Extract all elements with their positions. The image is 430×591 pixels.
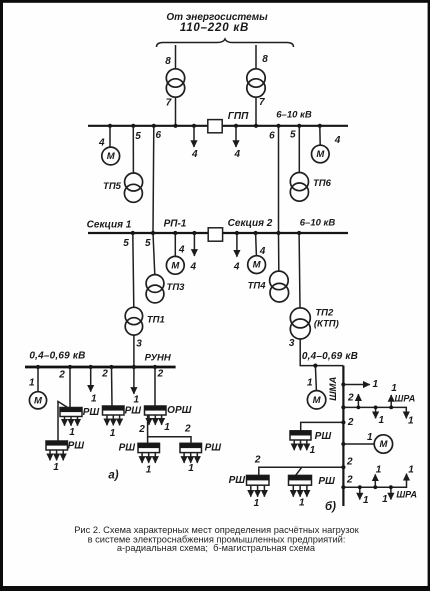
svg-text:РШ: РШ <box>318 476 335 487</box>
svg-text:б): б) <box>325 501 336 513</box>
svg-text:ТП3: ТП3 <box>167 282 186 293</box>
svg-text:1: 1 <box>379 415 385 426</box>
svg-text:1: 1 <box>310 445 316 456</box>
node: M drop section1 <box>173 231 177 235</box>
svg-text:3: 3 <box>136 338 142 349</box>
cabinet RSh-b3 <box>289 475 312 485</box>
node: motor drop on RUNN <box>36 365 40 369</box>
wire: ShMA to RSh-b1 <box>301 422 344 430</box>
svg-text:М: М <box>316 149 325 160</box>
svg-text:ОРШ: ОРШ <box>167 405 191 416</box>
wire: T2 to GPP bus <box>255 97 257 126</box>
svg-text:2: 2 <box>347 417 354 428</box>
svg-text:М: М <box>107 151 116 162</box>
arrow: outgoing feeder RUNN 1 <box>90 367 92 392</box>
svg-text:2: 2 <box>58 370 65 381</box>
motor M4 (section 2) <box>248 256 266 274</box>
svg-text:РШ: РШ <box>229 475 246 486</box>
svg-text:2: 2 <box>346 457 353 468</box>
wire: T1 to GPP bus <box>175 97 177 126</box>
svg-text:1: 1 <box>53 462 59 473</box>
cabinet RSh5 <box>180 443 202 452</box>
node: RSh1 feeder <box>68 365 72 369</box>
arrow: ShRA1 up tap 1 <box>357 394 359 407</box>
arrow: outgoing feeder left of box <box>193 126 195 147</box>
outer frame top <box>0 0 430 3</box>
transformer TP4 <box>270 271 289 302</box>
outer frame bottom <box>0 586 430 591</box>
node: outgoing arrow RUNN 1 <box>89 365 93 369</box>
node: RSh-b2/b3 branch <box>341 465 345 469</box>
svg-text:2: 2 <box>138 424 145 435</box>
cabinet RSh4 <box>138 443 160 452</box>
node: top right arrow <box>341 382 345 386</box>
svg-text:ШРА: ШРА <box>395 394 416 404</box>
svg-text:2: 2 <box>157 369 164 380</box>
node: T1 connection <box>173 124 177 128</box>
arrow: ShRA1 end drop <box>405 413 407 418</box>
transformer TP6 <box>290 173 308 202</box>
node: feeder 6 to section 1 <box>152 124 156 128</box>
arrow: outgoing feeder section2 <box>236 233 238 257</box>
svg-text:ТП5: ТП5 <box>103 181 122 192</box>
arrows: loads under RSh4 <box>142 453 155 463</box>
node: motor branch on ShMA <box>341 442 345 446</box>
svg-text:2: 2 <box>254 455 261 466</box>
arrow: branch right from ShMA <box>343 384 369 386</box>
cabinet RSh-b1 <box>290 431 311 440</box>
wire: RSh1 hook down to RSh2 <box>58 402 70 442</box>
svg-text:ТП6: ТП6 <box>313 178 332 189</box>
svg-text:а-радиальная схема; б-магистр: а-радиальная схема; б-магистральная схем… <box>117 543 316 553</box>
node on ShRA1 <box>357 406 361 410</box>
motor M5 (0.4 kV) <box>29 392 46 409</box>
svg-text:1: 1 <box>408 464 414 475</box>
wire: section2 to TP4 <box>278 233 280 271</box>
node: left outgoing arrow <box>192 124 196 128</box>
svg-text:ШМА: ШМА <box>328 377 339 401</box>
node: M drop on GPP bus right <box>318 124 322 128</box>
breaker box between section 1 and 2 <box>208 228 222 241</box>
svg-text:РУНН: РУНН <box>145 352 172 363</box>
svg-text:0,4–0,69 кВ: 0,4–0,69 кВ <box>29 351 85 362</box>
svg-text:5: 5 <box>290 129 296 140</box>
wire: to motor M section2 <box>255 233 258 256</box>
svg-text:РШ: РШ <box>315 431 332 442</box>
svg-text:5: 5 <box>135 131 141 142</box>
transformer T1 (left 110/6-10) <box>166 69 184 97</box>
svg-text:8: 8 <box>165 56 171 67</box>
svg-text:4: 4 <box>98 137 105 148</box>
wire: TP1 to RUNN bus <box>133 335 135 366</box>
node: RSh-b1 branch <box>341 420 345 424</box>
wire: ORSh down to RSh4 <box>147 415 149 443</box>
svg-text:Секция 1: Секция 1 <box>87 219 132 230</box>
wire: ShRA1 busway <box>343 407 406 418</box>
svg-text:ГПП: ГПП <box>228 111 249 122</box>
wire: ShMA to motor M7 <box>343 443 374 445</box>
wire: to RSh3 <box>111 367 114 406</box>
svg-text:4: 4 <box>334 135 341 146</box>
arrows: loads under ORSh <box>149 415 162 425</box>
wire: feeder 6 from GPP bus down to section 2 bus <box>278 126 280 233</box>
svg-text:РШ: РШ <box>83 407 100 418</box>
svg-text:5: 5 <box>123 238 129 249</box>
arrows: loads under RSh1 <box>65 417 78 426</box>
wire: to motor M (GPP bus left) <box>109 126 111 147</box>
motor M2 (6-10 kV, right) <box>312 145 330 163</box>
svg-text:РП-1: РП-1 <box>164 218 187 229</box>
wire: ShMA left to RSh-b2 <box>259 467 344 475</box>
node: RSh3 feeder <box>109 365 113 369</box>
node on ShRA1 <box>374 406 378 410</box>
wire: to RSh1 <box>69 367 71 408</box>
outer frame left <box>0 0 3 591</box>
svg-text:М: М <box>34 395 43 406</box>
svg-text:1: 1 <box>146 464 152 475</box>
svg-text:110–220 кВ: 110–220 кВ <box>180 22 249 34</box>
node: TP2 feeder <box>297 231 301 235</box>
node: M drop on GPP bus <box>108 124 112 128</box>
node: outgoing arrow section2 <box>235 231 239 235</box>
node: TP1 feeder <box>131 231 135 235</box>
arrows: loads under RSh3 <box>107 415 120 425</box>
svg-text:0,4–0,69 кВ: 0,4–0,69 кВ <box>302 351 358 362</box>
wire: TP2 down and over to ShMA <box>300 339 343 366</box>
arrows: loads under RSh-b1 <box>294 440 307 450</box>
arrow: ShRA2 down tap 1 <box>359 487 361 499</box>
node on ShRA1 <box>389 406 393 410</box>
svg-text:1: 1 <box>382 494 388 505</box>
node: TP4 feeder <box>276 231 280 235</box>
wire: section1 to TP1 <box>133 233 134 307</box>
bus: ShMA vertical trunk <box>342 366 344 506</box>
svg-text:4: 4 <box>234 149 241 160</box>
node: ORSh feeder <box>153 365 157 369</box>
svg-text:1: 1 <box>254 498 260 509</box>
svg-text:1: 1 <box>164 422 170 433</box>
arrow: outgoing feeder right of box <box>235 126 237 147</box>
motor M1 (6-10 kV, left) <box>102 147 120 165</box>
node: ShRA1 branch <box>341 405 345 409</box>
wire: to ORSh <box>154 367 156 406</box>
arrow: ShRA2 end up <box>406 474 408 481</box>
arrows: loads under RSh-b3 <box>293 485 307 497</box>
svg-text:а): а) <box>108 470 118 482</box>
arrows: loads under RSh5 <box>184 453 197 463</box>
motor M7 (scheme b right) <box>374 435 392 453</box>
node on ShRA2 <box>389 485 393 489</box>
svg-text:М: М <box>313 395 322 406</box>
svg-text:РШ: РШ <box>205 443 222 454</box>
wire: to motor M section1 <box>174 233 176 257</box>
svg-text:3: 3 <box>289 338 295 349</box>
svg-text:1: 1 <box>110 428 116 439</box>
transformer TP2 (KTP) <box>290 308 310 339</box>
svg-text:1: 1 <box>367 432 373 443</box>
svg-text:1: 1 <box>373 379 379 390</box>
svg-text:РШ: РШ <box>119 443 136 454</box>
svg-text:2: 2 <box>184 423 191 434</box>
svg-text:6: 6 <box>269 131 275 142</box>
svg-text:4: 4 <box>259 246 266 257</box>
wire: feeder 6 from GPP bus down to section 1 bus <box>152 126 155 233</box>
cabinet RSh-b2 <box>247 475 270 485</box>
svg-text:4: 4 <box>178 244 185 255</box>
outer frame right <box>428 0 430 591</box>
svg-text:4: 4 <box>190 262 197 273</box>
wire: to motor M (GPP bus right) <box>319 126 321 146</box>
svg-text:2: 2 <box>101 368 108 379</box>
wire: left supply line into T1 <box>175 45 177 69</box>
svg-text:1: 1 <box>299 498 305 509</box>
svg-text:6–10 кВ: 6–10 кВ <box>300 217 336 228</box>
node: right outgoing arrow <box>234 124 238 128</box>
motor M6 (scheme b top) <box>307 391 325 409</box>
node: motor tap on TP2 link <box>313 364 317 368</box>
svg-text:7: 7 <box>166 98 172 109</box>
svg-text:М: М <box>171 260 180 271</box>
svg-text:(КТП): (КТП) <box>314 319 339 330</box>
svg-text:1: 1 <box>391 383 397 394</box>
svg-text:ТП4: ТП4 <box>248 280 267 291</box>
node: TP6 drop <box>297 124 301 128</box>
arrows: loads under RSh-b2 <box>251 485 265 497</box>
svg-text:1: 1 <box>134 394 140 405</box>
transformer TP5 <box>124 173 142 202</box>
arrow: ShRA1 up tap 2 <box>390 395 392 407</box>
svg-text:8: 8 <box>262 54 268 65</box>
cabinet RSh1 <box>60 408 82 417</box>
brace: supply from energy system <box>157 39 294 47</box>
arrow: outgoing feeder section1 <box>193 233 195 256</box>
svg-text:6: 6 <box>156 130 162 141</box>
node: TP5 drop <box>131 124 135 128</box>
bus: GPP 6-10 kV busbar <box>88 125 348 127</box>
svg-text:1: 1 <box>29 378 35 389</box>
node: ShRA2 branch <box>341 485 345 489</box>
node: TP3 feeder <box>151 231 155 235</box>
svg-text:1: 1 <box>188 463 194 474</box>
svg-text:1: 1 <box>363 495 369 506</box>
svg-text:М: М <box>253 260 262 271</box>
svg-text:М: М <box>379 439 388 450</box>
svg-text:7: 7 <box>259 97 265 108</box>
svg-text:6–10 кВ: 6–10 кВ <box>276 109 312 120</box>
svg-text:4: 4 <box>191 149 198 160</box>
wire: tap down to RSh-b3 <box>296 467 302 475</box>
node: M drop section2 <box>254 231 258 235</box>
wire: section2 to TP2 <box>298 233 301 308</box>
transformer TP1 <box>125 307 142 335</box>
transformer T2 (right 110/6-10) <box>247 69 265 97</box>
svg-text:1: 1 <box>69 427 75 438</box>
arrow: outgoing feeder RUNN 2 <box>133 367 135 394</box>
svg-text:5: 5 <box>145 238 151 249</box>
wire: right supply line into T2 <box>255 45 257 69</box>
node: feeder 6 to section 2 <box>276 124 280 128</box>
wire: to motor M RUNN <box>37 367 39 392</box>
arrows: loads under RSh2 <box>50 450 63 460</box>
svg-text:2: 2 <box>346 475 353 486</box>
wire: to motor M (ShMA top) <box>315 366 316 391</box>
svg-text:4: 4 <box>233 262 240 273</box>
cabinet ОРШ <box>145 406 167 415</box>
svg-text:1: 1 <box>408 415 414 426</box>
svg-text:1: 1 <box>376 464 382 475</box>
motor M3 (section 1) <box>166 256 184 274</box>
svg-text:1: 1 <box>307 378 313 389</box>
cabinet RSh3 <box>103 406 125 415</box>
breaker box on GPP bus <box>208 120 222 133</box>
node: outgoing arrow section1 <box>192 231 196 235</box>
wire: to TP6 <box>298 126 300 173</box>
wire: section1 to TP3 <box>153 233 155 275</box>
svg-text:ТП2: ТП2 <box>315 307 334 318</box>
arrow: ShRA2 down tap 2 <box>390 487 392 499</box>
svg-text:РШ: РШ <box>125 405 142 416</box>
bus: section 1 busbar <box>88 232 348 234</box>
node: TP1 infeed / arrow drop <box>132 365 136 369</box>
svg-text:1: 1 <box>91 393 97 404</box>
svg-text:ТП1: ТП1 <box>147 315 165 326</box>
svg-text:РШ: РШ <box>68 440 85 451</box>
arrow: ShRA2 up tap <box>374 474 376 487</box>
arrow: ShRA1 down tap <box>375 407 377 418</box>
node on ShRA2 <box>358 485 362 489</box>
node: T2 connection <box>254 124 258 128</box>
bus: RUNN 0.4 kV busbar (scheme a) <box>25 366 176 369</box>
wire: branch over to RSh5 <box>148 437 191 444</box>
svg-text:ШРА: ШРА <box>396 490 417 500</box>
cabinet RSh2 <box>46 441 68 450</box>
transformer TP3 <box>146 275 164 303</box>
wire: to TP5 <box>132 126 134 173</box>
svg-text:Секция 2: Секция 2 <box>228 218 273 229</box>
svg-text:2: 2 <box>347 393 354 404</box>
wire: ShRA2 busway <box>343 476 406 487</box>
node on ShRA2 <box>373 485 377 489</box>
